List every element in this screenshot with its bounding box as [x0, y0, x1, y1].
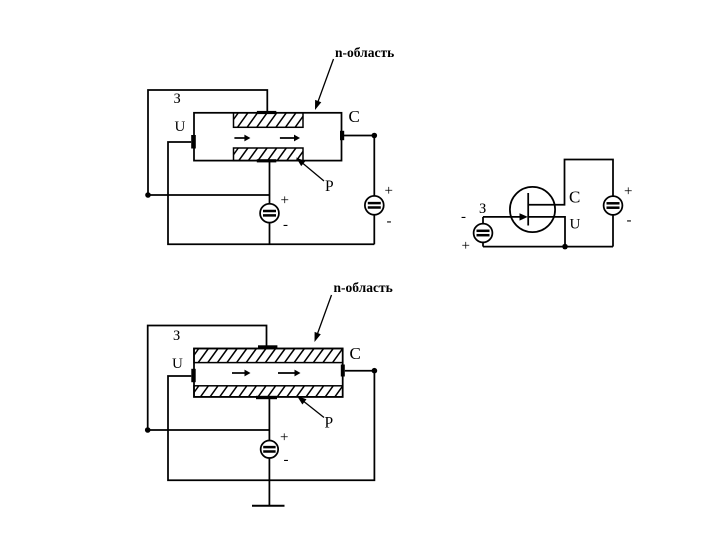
- drain contact tab (diagram 3): [341, 365, 345, 377]
- p-region bottom hatched band (diagram 3): [194, 386, 343, 397]
- current flow arrow 1 (diagram 3): [232, 372, 247, 374]
- wire bottom rail (diagram 2): [483, 246, 613, 248]
- pointer arrow to p-region (diagram 1): [300, 161, 324, 181]
- wire gate tab to battery GB1 (diagram 1): [269, 161, 271, 204]
- svg-text:+: +: [281, 193, 289, 209]
- svg-text:n-область: n-область: [334, 280, 393, 295]
- current flow arrow 2 (diagram 3): [278, 372, 297, 374]
- wire gate with arrow (diagram 2): [483, 216, 520, 218]
- svg-text:n-область: n-область: [335, 45, 394, 60]
- svg-text:+: +: [385, 183, 393, 199]
- svg-text:З: З: [174, 91, 181, 107]
- battery GB5 gate bias (diagram 3): [261, 441, 279, 459]
- battery GB1 gate bias (diagram 1): [260, 204, 279, 223]
- svg-text:Р: Р: [325, 178, 334, 195]
- svg-text:З: З: [479, 201, 486, 217]
- n-channel body rect (diagram 3): [194, 349, 343, 397]
- wire drain loop (diagram 2): [528, 160, 613, 205]
- svg-text:-: -: [387, 214, 392, 230]
- battery GB3 gate (diagram 2): [474, 224, 493, 243]
- source contact tab (diagram 1): [191, 135, 196, 149]
- battery GB2 drain supply (diagram 1): [365, 196, 384, 215]
- n-channel body rect (diagram 1): [194, 113, 342, 161]
- ground symbol (diagram 3): [252, 505, 285, 507]
- battery GB4 drain (diagram 2): [604, 196, 623, 215]
- p-region bottom hatched (diagram 1): [234, 148, 304, 161]
- node junction dot drain (diagram 3): [372, 368, 378, 374]
- wire drain to node (diagram 1): [344, 135, 374, 137]
- wire gate top loop (diagram 1): [148, 90, 267, 195]
- svg-text:С: С: [350, 344, 361, 363]
- wire gate bias horizontal (diagram 3): [148, 429, 270, 431]
- node junction dot source (diagram 2): [562, 244, 568, 250]
- p-region top hatched band (diagram 3): [194, 349, 343, 363]
- svg-text:-: -: [283, 217, 288, 233]
- svg-text:-: -: [461, 209, 466, 225]
- wire source loop (diagram 3): [168, 371, 374, 481]
- svg-text:U: U: [570, 217, 581, 233]
- svg-text:U: U: [172, 356, 183, 372]
- gate contact tab bottom (diagram 1): [257, 159, 277, 162]
- pointer arrow to n-region (diagram 1): [317, 59, 334, 106]
- drain contact tab (diagram 1): [340, 131, 344, 140]
- gate contact tab top (diagram 1): [257, 111, 276, 114]
- source contact tab (diagram 3): [191, 369, 195, 382]
- p-region top hatched (diagram 1): [234, 113, 304, 128]
- node junction dot drain (diagram 1): [372, 133, 378, 139]
- wire below battery GB4 (diagram 2): [612, 215, 614, 246]
- svg-text:Р: Р: [325, 415, 334, 432]
- pointer arrow to n-region (diagram 3): [316, 295, 331, 338]
- svg-text:-: -: [627, 213, 632, 229]
- node junction dot left (diagram 3): [145, 427, 151, 433]
- gate contact tab bottom (diagram 3): [256, 396, 277, 399]
- svg-text:+: +: [624, 184, 632, 200]
- wire source (diagram 2): [528, 217, 565, 247]
- svg-text:+: +: [280, 430, 288, 446]
- svg-text:+: +: [462, 238, 470, 254]
- transistor VT1 channel bar (diagram 2): [527, 193, 529, 226]
- wire battery GB3 to gate (diagram 2): [482, 217, 484, 223]
- wire gate top loop (diagram 3): [148, 326, 267, 431]
- transistor VT1 envelope circle (diagram 2): [510, 187, 555, 232]
- wire gate tab to battery GB5 (diagram 3): [268, 399, 270, 441]
- wire drain battery vertical (diagram 1): [373, 136, 375, 196]
- wire below battery GB1 (diagram 1): [269, 223, 271, 244]
- svg-text:U: U: [175, 119, 186, 135]
- pointer arrow to p-region (diagram 3): [301, 399, 324, 418]
- current flow arrow 2 (diagram 1): [280, 137, 296, 139]
- current flow arrow 1 (diagram 1): [234, 137, 246, 139]
- gate contact tab top (diagram 3): [258, 345, 277, 348]
- wire below battery GB2 (diagram 1): [373, 215, 375, 244]
- svg-text:С: С: [569, 188, 580, 207]
- wire battery GB5 to ground (diagram 3): [268, 458, 270, 506]
- svg-text:-: -: [284, 452, 289, 468]
- node junction dot left (diagram 1): [145, 192, 151, 198]
- wire gate bias horizontal (diagram 1): [148, 194, 270, 196]
- wire battery GB3 bottom (diagram 2): [482, 243, 484, 247]
- svg-text:З: З: [173, 328, 180, 344]
- svg-text:С: С: [349, 107, 360, 126]
- wire source loop (diagram 1): [168, 142, 374, 244]
- wire drain to node (diagram 3): [345, 370, 375, 372]
